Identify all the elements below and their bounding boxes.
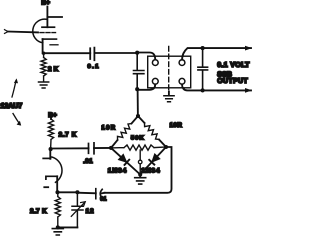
wire T1 core to ground [168,92,170,96]
resistor 2.7K plate load [48,119,53,149]
wire T1 terminal 4 to bottom rail [182,84,251,90]
node bridge apex [136,114,140,118]
node cathode V1b junction [55,190,59,194]
arrow to V1a [12,81,16,98]
output arrowhead bottom [245,88,252,93]
T1 terminal 3 [179,60,185,66]
node cathode junction [42,52,45,55]
capacitor C2 (primary tuning) [134,53,144,89]
node plate junction [49,147,53,151]
resistor 10R right [145,123,160,140]
svg-text:0.1 VOLT: 0.1 VOLT [217,62,250,69]
svg-text:B+: B+ [48,112,57,119]
svg-text:50K: 50K [131,136,145,142]
svg-text:1N34: 1N34 [141,167,160,174]
wire cathode node to C1 [44,52,91,54]
wire B+ to 2.7K [50,118,52,120]
node resistor bottom [56,225,60,229]
triode V1b plate bar [43,157,50,159]
triode V1b (12AU7 section B) envelope [52,157,62,182]
triode V1a cathode bar [42,38,56,40]
node A junction [135,51,139,55]
potentiometer 50K wiper [139,150,141,175]
triode V1a grid dashes [40,32,56,34]
trimmer arrow [71,203,84,217]
svg-text:OUTPUT: OUTPUT [217,78,248,85]
wire cathode V1b to node [56,176,58,192]
wire cathode node to trimmer node [58,191,78,193]
svg-text:10R: 10R [102,125,117,131]
node B junction [135,87,139,91]
wire C1 to node A [94,52,137,54]
capacitor .01 [89,143,95,154]
svg-text:2.7 K: 2.7 K [30,208,47,215]
ground below 2.7K [52,229,63,235]
resistor 10R left [118,124,132,141]
potentiometer 50K body [111,145,166,150]
wire cathode to node [42,39,44,53]
wire plate stub right [47,16,62,18]
capacitor C3 (output) [198,48,208,90]
triode V1a heater stub [50,44,58,46]
capacitor 0.1 (C1) [90,48,94,61]
node output cap top [201,46,205,50]
resistor 2.7K cathode [55,192,60,227]
svg-text:12: 12 [86,208,95,215]
node L junction [109,146,113,150]
svg-text:1N34: 1N34 [108,167,127,174]
node output cap bottom [201,88,205,92]
svg-text:12AU7: 12AU7 [1,103,23,110]
wire node B to bridge apex [137,89,139,116]
wire plate node to plate bar [49,149,51,159]
wire B+ to plate V1a [46,7,48,28]
wire apex to 10R left [132,116,139,124]
T1 terminal 4 [179,78,185,84]
svg-text:10R: 10R [170,123,183,129]
svg-text:01: 01 [100,197,107,203]
triode V1a plate bar [42,26,55,28]
triode V1a (12AU7 section A) envelope [33,19,47,43]
svg-text:2.7 K: 2.7 K [59,132,77,139]
node R junction [164,145,168,149]
svg-text:.01: .01 [83,158,93,165]
triode V1b grid bar [46,176,57,179]
wire grid input lead [8,31,38,34]
node trimmer junction [75,190,79,194]
T1 terminal 1 [152,60,158,66]
wire coupling cap to audio line [101,192,104,195]
wire node L to left diode [111,148,140,175]
wire apex to 10R right [138,116,145,123]
diode 1N34 left [119,155,129,165]
ground below T1 [164,96,174,102]
T1 terminal 2 [152,78,158,84]
wire plate node to .01 cap [51,147,89,149]
wire 10R right to node R [159,140,166,148]
wire .01 to node L [94,147,111,149]
ground below bridge [135,178,146,184]
output arrowhead top [245,46,252,51]
ground below 2K [39,82,49,88]
wire T1 terminal 3 to top rail [182,48,251,60]
capacitor 01 coupling [96,189,102,199]
svg-text:0.1: 0.1 [88,64,100,70]
transformer T1 shield can [148,56,191,88]
svg-text:B+: B+ [41,0,50,7]
trimmer capacitor 12 [72,192,83,227]
wire node B to T1 terminal 2 [137,84,155,90]
T1 core dashed line [168,47,170,92]
wire trimmer node to coupling cap [77,192,95,195]
wire 10R left to node L [111,140,118,148]
wire node A to T1 terminal 1 [137,53,155,60]
arrow to V1b [13,114,20,125]
audio input stub [44,186,48,188]
wire node R to audio line [105,147,172,193]
carrier input arrowhead [5,30,9,34]
svg-text:2K: 2K [48,66,60,73]
wire node R to right diode [140,147,166,175]
wire trimmer bottom to resistor bottom [58,226,78,228]
resistor 2K [41,53,46,82]
wire bottom apex to ground [139,175,141,178]
node bridge bottom [138,172,142,176]
wiper circle [138,160,142,164]
diode 1N34 right [149,154,159,164]
